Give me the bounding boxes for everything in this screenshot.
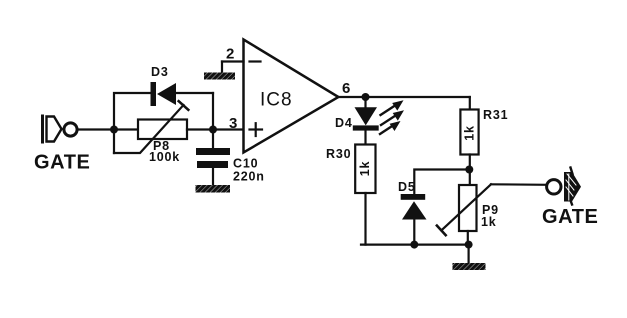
input terminal arrow (left GATE): [43, 116, 62, 142]
P8 wiper end bar: [179, 101, 189, 110]
svg-text:R30: R30: [326, 147, 351, 161]
node C junction at D4: [362, 93, 370, 101]
wire node B down to C10: [212, 130, 214, 149]
resistor R31: [460, 110, 478, 155]
op-amp IC8: [244, 40, 339, 153]
LED D4 light arrow 2: [381, 110, 404, 125]
svg-text:1k: 1k: [358, 161, 372, 177]
svg-text:R31: R31: [483, 108, 508, 122]
wire D3 to right rail: [176, 92, 213, 94]
D4 cathode bar: [353, 125, 379, 130]
wire D4 to R30: [364, 131, 366, 145]
wire node D to D5: [414, 170, 469, 196]
capacitor C10 plate 2: [197, 161, 228, 168]
wire left rail of D3/P8 loop: [114, 93, 151, 153]
minus sign pin 2: [250, 60, 261, 62]
bottom rail wire: [361, 244, 469, 246]
wire C10 to ground: [212, 168, 214, 185]
LED D4 light arrow 1: [381, 100, 404, 115]
plus sign pin 3: [250, 123, 263, 136]
svg-text:GATE: GATE: [34, 152, 90, 174]
ground at pin 2: [204, 73, 235, 80]
svg-text:C10: C10: [233, 157, 258, 171]
ground bottom right: [453, 263, 486, 270]
wire input to node A: [78, 128, 139, 130]
svg-text:100k: 100k: [149, 150, 180, 164]
svg-text:2: 2: [226, 46, 234, 63]
wire bottom rail to ground: [468, 245, 470, 263]
wire output pin 6: [338, 96, 469, 98]
LED D4 light arrow 3: [380, 121, 401, 134]
wire D5 to bottom rail: [413, 220, 415, 245]
svg-text:3: 3: [229, 115, 237, 132]
wire R30 to bottom rail: [364, 193, 366, 245]
LED D4: [355, 107, 378, 125]
svg-text:D5: D5: [398, 180, 416, 194]
capacitor C10 plate 1: [196, 148, 230, 155]
ground under C10: [196, 185, 231, 193]
wire node C to D4: [364, 97, 366, 108]
svg-text:1k: 1k: [481, 215, 497, 229]
junction P9 bottom: [465, 241, 473, 249]
potentiometer P9 wiper: [441, 184, 491, 230]
svg-text:6: 6: [342, 80, 350, 97]
node A junction: [110, 126, 118, 134]
svg-text:D3: D3: [151, 65, 169, 79]
svg-text:220n: 220n: [233, 170, 265, 184]
input terminal circle: [64, 123, 77, 136]
potentiometer P9 body: [459, 185, 477, 231]
wire down to R31: [469, 97, 471, 110]
wire pin2 to ground: [221, 62, 223, 74]
wire P9 to bottom rail: [467, 231, 469, 245]
output terminal arrow (right GATE): [564, 168, 581, 205]
diode D5 cathode bar: [401, 194, 426, 200]
output terminal circle: [547, 180, 561, 194]
svg-text:D4: D4: [335, 116, 353, 130]
node D junction: [465, 166, 473, 174]
node B junction: [209, 126, 217, 134]
junction D5 bottom: [410, 241, 418, 249]
diode D3: [157, 83, 176, 105]
P9 wiper end bar: [437, 226, 446, 236]
resistor R30: [355, 145, 375, 194]
wire P8 to pin 3: [187, 128, 243, 130]
svg-text:1k: 1k: [463, 125, 477, 141]
potentiometer P8 body: [138, 120, 187, 140]
svg-text:GATE: GATE: [542, 206, 598, 228]
pin 2 wire: [222, 60, 244, 62]
svg-text:IC8: IC8: [260, 90, 293, 111]
wire R31 to node D: [469, 155, 471, 186]
diode D3 cathode bar: [151, 82, 157, 106]
diode D5: [402, 201, 427, 219]
potentiometer P8 wiper: [114, 105, 184, 153]
wire wiper to output circle: [491, 183, 547, 186]
wire right rail down to node B: [212, 93, 214, 130]
